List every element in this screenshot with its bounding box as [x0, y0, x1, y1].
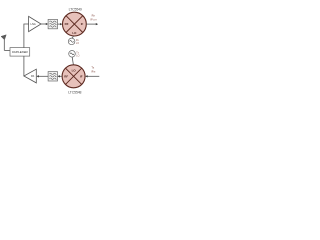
- label Rx IFOUT: [90, 13, 97, 21]
- label Rx LO: [76, 39, 80, 45]
- wire antenna to duplexer: [4, 49, 10, 51]
- svg-text:IF: IF: [81, 22, 84, 26]
- wire duplexer to LNA (Rx vertical): [24, 24, 29, 48]
- duplexer box: [10, 48, 30, 57]
- svg-text:PA: PA: [31, 74, 35, 78]
- svg-text:LO: LO: [76, 42, 79, 45]
- wire duplexer to PA (Tx vertical): [23, 56, 25, 76]
- svg-text:Tx: Tx: [91, 65, 95, 69]
- svg-text:LTC5549: LTC5549: [69, 8, 82, 12]
- wire Tx LO to mixer: [72, 57, 73, 65]
- wire Rx filter to mixer: [58, 23, 61, 25]
- wire Tx filter to PA: [38, 75, 48, 77]
- svg-text:LTC5548: LTC5548: [68, 91, 81, 95]
- mixer LTC5549 (Rx downconverter): [63, 12, 87, 36]
- svg-text:RF: RF: [64, 74, 68, 78]
- mixer LTC5548 (Tx upconverter): [62, 65, 85, 88]
- svg-text:RF: RF: [65, 22, 69, 26]
- arrowhead Rx IF out: [96, 23, 98, 25]
- svg-text:DUPLEXER: DUPLEXER: [12, 50, 28, 54]
- wire Rx mixer LO port: [72, 36, 74, 38]
- wire LNA to Rx filter: [41, 23, 47, 25]
- amplifier PA: [24, 69, 36, 83]
- wire Rx mixer IF out: [86, 23, 96, 25]
- arrowhead into PA: [37, 75, 39, 77]
- antenna: [1, 35, 6, 51]
- wire Tx IF in: [87, 75, 99, 77]
- svg-text:Rx: Rx: [92, 13, 96, 17]
- Tx bandpass filter: [48, 72, 57, 81]
- svg-text:IFIN: IFIN: [91, 70, 96, 73]
- arrowhead into Tx mixer IF port: [85, 75, 87, 77]
- wire Tx mixer to filter: [60, 75, 63, 77]
- svg-text:IFOUT: IFOUT: [90, 18, 97, 21]
- arrowhead into Rx mixer RF port: [60, 23, 62, 25]
- arrowhead into Rx filter: [46, 23, 48, 25]
- arrowhead into Tx filter: [58, 75, 60, 77]
- amplifier LNA: [29, 16, 41, 31]
- oscillator Rx LO: [68, 38, 75, 45]
- svg-text:IF: IF: [80, 74, 83, 78]
- label Tx LO: [76, 51, 79, 57]
- label Tx IFIN: [91, 65, 96, 73]
- Rx bandpass filter: [48, 19, 57, 28]
- oscillator Tx LO: [69, 51, 76, 58]
- svg-text:LNA: LNA: [30, 22, 35, 26]
- svg-text:LO: LO: [76, 55, 79, 58]
